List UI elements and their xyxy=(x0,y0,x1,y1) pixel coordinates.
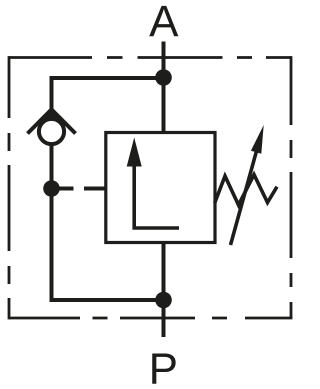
node bottom junction xyxy=(155,292,172,309)
pilot line dashed xyxy=(59,187,106,191)
enclosure dashed border bottom xyxy=(9,317,292,320)
wire port A vertical xyxy=(162,42,166,133)
port label A xyxy=(149,6,178,36)
check valve V1 seat xyxy=(28,110,76,134)
node left junction xyxy=(43,180,60,197)
valve body box xyxy=(106,133,215,243)
flow arrow inside valve body xyxy=(134,162,179,228)
check valve V1 ball xyxy=(39,119,64,144)
port label P xyxy=(152,354,175,384)
adjustment arrow shaft xyxy=(231,149,258,246)
node top junction xyxy=(155,69,172,86)
enclosure dashed border left xyxy=(8,56,11,319)
enclosure dashed border right xyxy=(290,56,293,318)
wire from top node to check valve xyxy=(52,78,164,112)
wire port P vertical xyxy=(162,243,166,338)
enclosure dashed border top xyxy=(9,56,291,59)
wire left vertical and bottom run xyxy=(52,146,164,301)
spring (adjustable) xyxy=(215,175,277,205)
adjustment arrow head xyxy=(251,125,264,154)
